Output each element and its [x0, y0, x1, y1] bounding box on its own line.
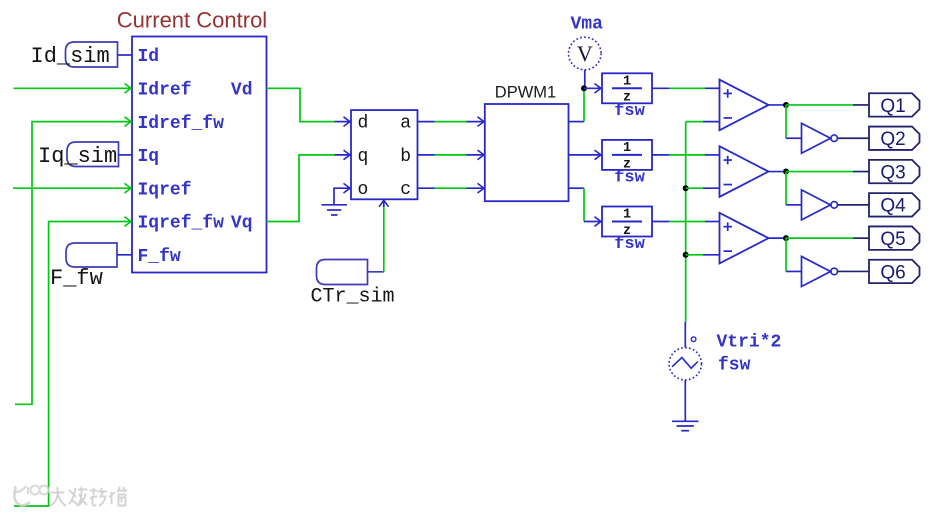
- label Q2 box: [869, 127, 920, 150]
- svg-text:Q1: Q1: [880, 96, 905, 117]
- wire node A to Z1: [584, 87, 602, 89]
- svg-text:fsw: fsw: [614, 102, 645, 121]
- wire U3 out a to node A: [569, 88, 585, 121]
- svg-text:Iqref: Iqref: [138, 180, 192, 200]
- wire to Q1: [786, 104, 869, 106]
- label Iq_sim box: [67, 142, 119, 167]
- ground at Vtri: [672, 421, 699, 430]
- wire CMP1 output: [769, 104, 787, 106]
- arrow into U3 input b: [478, 150, 485, 160]
- label Q5 text: [880, 229, 905, 250]
- label Q2 text: [880, 129, 905, 150]
- source Vtri terminal marker: [691, 337, 696, 342]
- wire U3 out b to Z2: [569, 154, 603, 156]
- pin Iqref_fw of U1: [138, 214, 225, 234]
- pin F_fw of U1: [138, 247, 181, 267]
- wire CMP2 out to INV2: [786, 172, 802, 205]
- junction node A: [581, 85, 587, 91]
- svg-text:fsw: fsw: [614, 235, 645, 254]
- arrow into U3 input c: [478, 183, 485, 193]
- junction bus CMP3-: [683, 252, 689, 258]
- inverter INV3: [802, 256, 838, 286]
- delay block Z3 1/z: [602, 207, 652, 239]
- label Id_sim text: [31, 44, 110, 69]
- svg-text:Vd: Vd: [231, 81, 253, 101]
- svg-text:CTr_sim: CTr_sim: [311, 286, 395, 309]
- wire Vtri to ground: [684, 380, 686, 421]
- watermark logo (decorative): [14, 486, 48, 506]
- pin Vq of U1: [231, 214, 253, 234]
- svg-text:Q3: Q3: [880, 162, 905, 183]
- svg-text:q: q: [358, 147, 369, 167]
- wire U2.c to U3: [418, 187, 485, 189]
- junction CMP3 out: [783, 235, 789, 241]
- wire to Q3: [786, 171, 869, 173]
- svg-text:Iq: Iq: [138, 147, 160, 167]
- pin a of U2: [400, 114, 411, 134]
- label Vma text: [571, 15, 604, 35]
- label CTr_sim box: [317, 260, 368, 285]
- svg-text:a: a: [400, 114, 411, 134]
- svg-text:Idref_fw: Idref_fw: [138, 114, 225, 134]
- wire bus to CMP3-: [686, 254, 720, 256]
- wire Idref_fw input: [15, 122, 132, 405]
- svg-text:Q2: Q2: [880, 129, 905, 150]
- wire Z2 to CMP2+: [652, 154, 720, 156]
- wire CMP1 out to INV1: [786, 105, 802, 138]
- arrow into Z3: [595, 217, 602, 227]
- pin Iqref of U1: [138, 180, 192, 200]
- block U3 DPWM1 body: [485, 104, 569, 201]
- svg-text:Q5: Q5: [880, 229, 905, 250]
- arrow into U1.Iqref: [125, 183, 132, 193]
- block U3 DPWM1 title: [495, 84, 556, 102]
- wire U2.b to U3: [418, 154, 485, 156]
- value label fsw of Z1: [614, 102, 645, 121]
- svg-text:fsw: fsw: [614, 169, 645, 188]
- value label Vtri*2: [717, 333, 782, 353]
- wire INV1 to Q2: [838, 137, 869, 139]
- arrow into U1.Idref: [125, 84, 132, 94]
- wire CMP2 output: [769, 171, 787, 173]
- pin o of U2: [358, 180, 369, 200]
- op-amp comparator CMP1: [720, 80, 769, 131]
- svg-text:F_fw: F_fw: [50, 266, 103, 291]
- block U2 dq0-abc body: [351, 110, 418, 199]
- pin d of U2: [358, 114, 369, 134]
- svg-text:fsw: fsw: [718, 356, 751, 376]
- wire Iqref_fw input: [14, 222, 132, 507]
- wire INV3 to Q6: [838, 270, 869, 272]
- wire U2.a to U3: [418, 121, 485, 123]
- junction CMP2 out: [783, 169, 789, 175]
- svg-text:Vtri*2: Vtri*2: [717, 333, 782, 353]
- pin Idref_fw of U1: [138, 114, 225, 134]
- wire INV2 to Q4: [838, 204, 869, 206]
- wire U1.Vd to U2.d: [267, 88, 335, 121]
- label Iq_sim text: [38, 144, 117, 169]
- wire to Q5: [786, 237, 869, 239]
- svg-text:Q6: Q6: [880, 262, 905, 283]
- arrow into U1.Idref_fw: [125, 117, 132, 127]
- value label fsw of Z2: [614, 169, 645, 188]
- svg-text:DPWM1: DPWM1: [495, 84, 556, 102]
- svg-text:V: V: [577, 41, 593, 66]
- delay block Z1 1/z: [602, 73, 652, 105]
- wire F_fw to U1.F_fw: [117, 254, 132, 256]
- svg-text:Idref: Idref: [138, 81, 192, 101]
- svg-text:c: c: [400, 180, 411, 200]
- junction bus CMP2-: [683, 185, 689, 191]
- arrow into Z1: [595, 84, 602, 94]
- arrow into Z2: [595, 150, 602, 160]
- wire Vma to node A: [584, 70, 586, 89]
- arrow into U1.Iqref_fw: [125, 217, 132, 227]
- svg-text:1: 1: [623, 74, 631, 89]
- svg-text:Iq_sim: Iq_sim: [38, 144, 117, 169]
- pin b of U2: [400, 147, 411, 167]
- wire CTr_sim to U2 bottom: [368, 199, 384, 271]
- inverter INV2: [802, 190, 838, 220]
- label Q3 text: [880, 162, 905, 183]
- svg-text:1: 1: [623, 208, 631, 223]
- wire Z1 to CMP1+: [652, 87, 720, 89]
- wire Id_sim to U1.Id: [118, 54, 133, 56]
- wire Iqref input: [13, 187, 132, 189]
- svg-text:d: d: [358, 114, 369, 134]
- voltmeter Vma letter: [577, 41, 593, 66]
- label Q1 text: [880, 96, 905, 117]
- arrow into U3 input a: [478, 117, 485, 127]
- svg-text:Current Control: Current Control: [117, 8, 267, 33]
- source Vtri triangle-wave body: [669, 348, 701, 380]
- label CTr_sim text: [311, 286, 395, 309]
- op-amp comparator CMP2: [720, 146, 769, 197]
- voltmeter Vma body: [569, 37, 602, 70]
- label Id_sim box: [66, 42, 118, 67]
- wire stub U2.q: [335, 154, 352, 156]
- op-amp comparator CMP3: [720, 213, 769, 264]
- arrow into U2.d: [344, 117, 351, 127]
- svg-text:b: b: [400, 147, 411, 167]
- value label fsw of Z3: [614, 235, 645, 254]
- wire bus to Vtri: [684, 322, 686, 348]
- svg-text:o: o: [358, 180, 369, 200]
- pin Vd of U1: [231, 81, 253, 101]
- svg-text:Vma: Vma: [571, 15, 604, 35]
- junction CMP1 out: [783, 102, 789, 108]
- wire bus to CMP2-: [686, 187, 720, 189]
- block U1 Current Control title: [117, 8, 267, 33]
- delay block Z2 1/z: [602, 140, 652, 172]
- pin Iq of U1: [138, 147, 160, 167]
- wire Idref input: [14, 87, 132, 89]
- svg-text:Id_sim: Id_sim: [31, 44, 110, 69]
- wire U3 out c to Z3: [569, 188, 603, 221]
- pin Id of U1: [138, 47, 160, 67]
- label Q6 text: [880, 262, 905, 283]
- inverter INV1: [802, 123, 838, 153]
- label F_fw text: [50, 266, 103, 291]
- arrow into U2 bottom: [379, 200, 389, 207]
- svg-text:Q4: Q4: [880, 196, 906, 217]
- svg-text:Iqref_fw: Iqref_fw: [138, 214, 225, 234]
- pin Idref of U1: [138, 81, 192, 101]
- wire U1.Vq to U2.q: [267, 155, 335, 222]
- wire CMP3 output: [769, 237, 787, 239]
- value label fsw of Vtri: [718, 356, 751, 376]
- wire Z3 to CMP3+: [652, 221, 720, 223]
- ground at U2.o: [322, 205, 348, 215]
- svg-text:F_fw: F_fw: [138, 247, 181, 267]
- label F_fw box: [66, 243, 117, 267]
- block U1 Current Control body: [132, 37, 267, 273]
- svg-text:1: 1: [623, 141, 631, 156]
- wire U2.o to ground: [334, 188, 351, 204]
- pin q of U2: [358, 147, 369, 167]
- arrow into U2.o: [344, 183, 351, 193]
- label Q5 box: [869, 226, 920, 249]
- label Q4 text: [880, 196, 906, 217]
- wire carrier bus vertical: [685, 122, 687, 322]
- label Q1 box: [869, 93, 920, 116]
- label Q4 box: [869, 193, 920, 216]
- watermark text (decorative): [51, 488, 127, 506]
- svg-text:Id: Id: [138, 47, 160, 67]
- wire bus to CMP1-: [686, 121, 720, 123]
- wire stub U2.d: [335, 121, 352, 123]
- pin c of U2: [400, 180, 411, 200]
- wire CMP3 out to INV3: [786, 238, 802, 271]
- label Q3 box: [869, 160, 920, 183]
- arrow into U2.q: [344, 150, 351, 160]
- label Q6 box: [869, 260, 920, 283]
- wire Iq_sim to U1.Iq: [119, 154, 133, 156]
- svg-text:Vq: Vq: [231, 214, 253, 234]
